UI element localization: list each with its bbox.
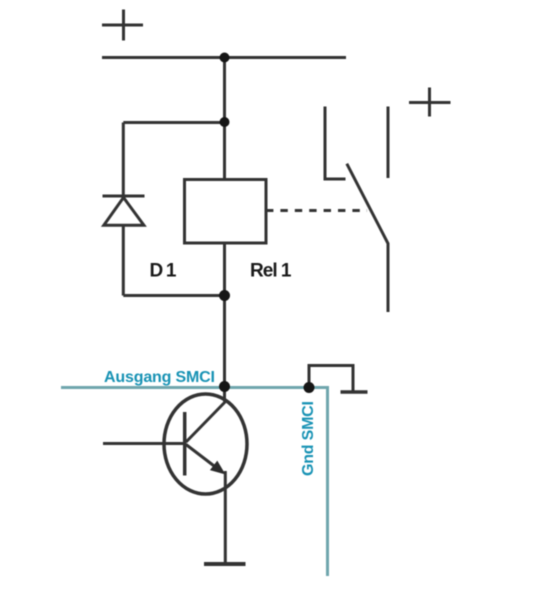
svg-text:Gnd SMCI: Gnd SMCI xyxy=(300,401,317,476)
transistor emitter diagonal with arrow xyxy=(186,445,226,475)
svg-text:D 1: D 1 xyxy=(150,261,177,282)
Gnd SMCI bracket wire xyxy=(309,366,353,393)
junction dot diode top xyxy=(220,117,230,127)
switch right contact xyxy=(387,107,390,179)
power symbol + (top left V+) xyxy=(102,10,143,41)
transistor Q1 body xyxy=(164,394,247,494)
diode D1 (cathode bar and triangle, pointing up) xyxy=(103,196,145,225)
dashed mechanical link relay to switch xyxy=(266,209,367,212)
wire: diode branch lower vertical xyxy=(122,225,125,295)
wire: diode branch upper vertical xyxy=(122,123,125,197)
junction dot diode bottom xyxy=(219,290,230,301)
junction dot collector / Ausgang xyxy=(219,381,230,392)
wire: diode branch bottom horizontal xyxy=(123,294,224,297)
wire: main vertical from rail to relay xyxy=(223,58,226,180)
relay coil Rel 1 xyxy=(185,180,267,244)
ground bar (Gnd SMCI) xyxy=(341,390,368,394)
switch left contact (L shape) xyxy=(325,107,346,180)
teal wire: Ausgang SMCI horizontal + Gnd SMCI vertical xyxy=(61,388,328,577)
junction dot Gnd SMCI xyxy=(304,382,315,393)
svg-text:Ausgang SMCI: Ausgang SMCI xyxy=(104,369,215,386)
wire: relay bottom to lower junction xyxy=(223,243,226,296)
transistor base bar xyxy=(183,412,187,476)
wire: lower junction down to transistor collector node xyxy=(223,296,226,402)
power symbol + (top right) xyxy=(409,88,451,117)
wire: +V supply rail xyxy=(102,56,346,59)
transistor collector diagonal xyxy=(186,402,226,443)
wire: diode branch top horizontal xyxy=(123,121,224,124)
ground GND bar xyxy=(204,562,246,566)
transistor base lead xyxy=(103,442,185,445)
switch lever and output wire xyxy=(347,164,388,312)
svg-text:Rel 1: Rel 1 xyxy=(250,261,292,282)
junction dot on rail xyxy=(220,53,230,63)
wire: emitter to ground xyxy=(224,471,227,564)
